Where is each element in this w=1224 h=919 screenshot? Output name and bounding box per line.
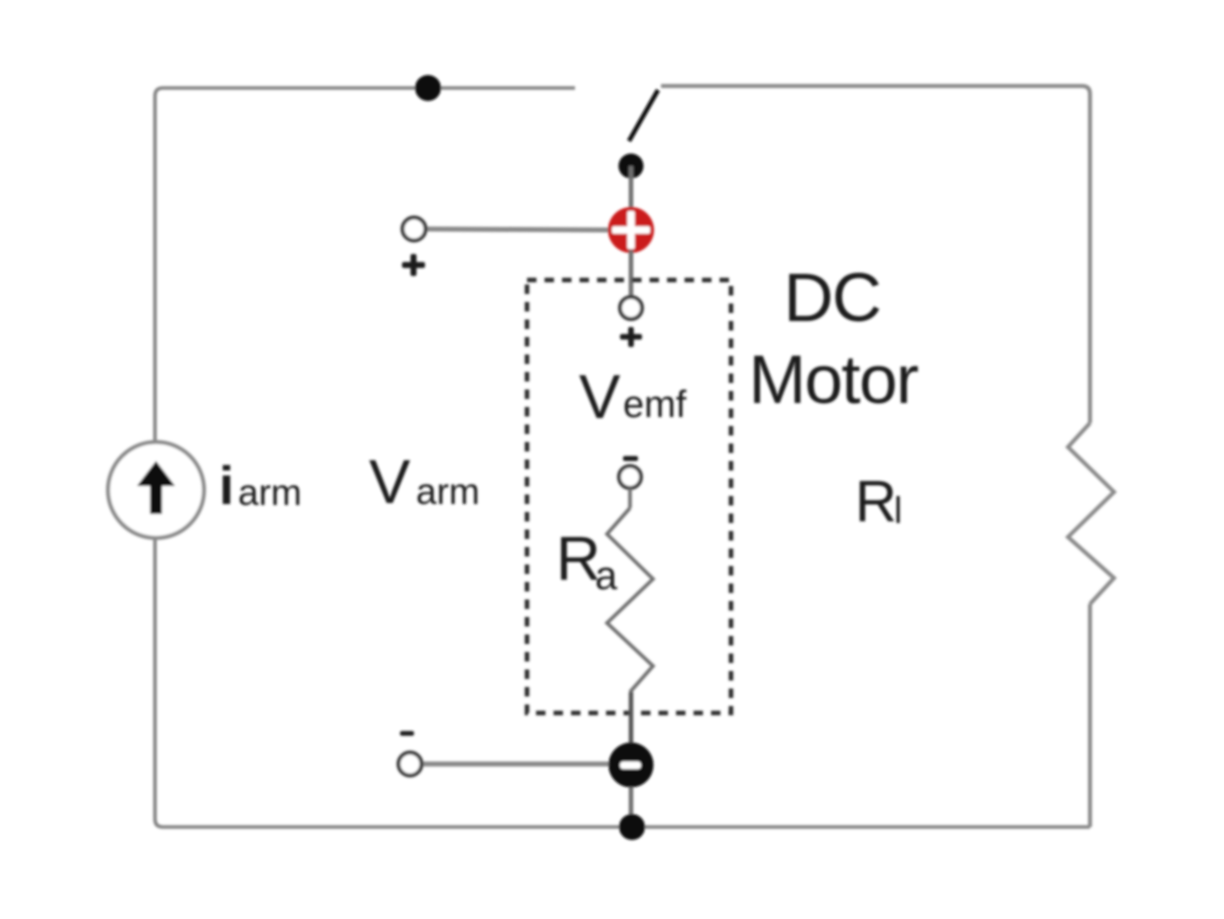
wire: upper left terminal to red terminal — [426, 229, 614, 230]
polarity + under Vemf top terminal — [620, 327, 642, 347]
svg-text:l: l — [894, 490, 902, 531]
wire: Ra to black terminal — [629, 692, 634, 748]
terminal: lower left open circle — [399, 753, 422, 776]
polarity - above lower left terminal — [400, 731, 414, 736]
node: junction dot on bottom wire — [619, 814, 645, 840]
svg-text:emf: emf — [623, 384, 687, 426]
wire: outer loop left side — [155, 88, 1090, 827]
wire: lower left terminal to black terminal — [422, 762, 614, 767]
resistor Ra zigzag — [607, 508, 653, 692]
terminal: Vemf + open circle — [620, 297, 642, 319]
node: switch pole dot — [619, 154, 644, 179]
current source arrow — [137, 461, 175, 514]
terminal: red plus terminal — [608, 207, 654, 253]
wire: top right segment into right side down to resistor Rl — [661, 86, 1090, 423]
wire: right side below Rl — [1088, 604, 1092, 827]
svg-text:Motor: Motor — [749, 341, 918, 418]
svg-text:V: V — [579, 363, 621, 432]
svg-text:a: a — [595, 554, 618, 598]
resistor Rl zigzag — [1068, 423, 1114, 604]
terminal: black minus terminal — [609, 743, 654, 788]
wire: black terminal to bottom wire — [629, 787, 634, 827]
current source iarm circle — [108, 442, 204, 538]
wire: stub below Vemf - terminal — [628, 488, 632, 508]
terminal: Vemf - open circle — [619, 466, 641, 488]
svg-text:arm: arm — [238, 472, 302, 513]
svg-text:V: V — [369, 448, 411, 517]
svg-text:DC: DC — [784, 259, 881, 336]
polarity + under upper left terminal — [402, 254, 425, 276]
svg-text:R: R — [855, 469, 897, 534]
wire: switch dot to red terminal — [629, 166, 634, 214]
svg-text:i: i — [219, 456, 234, 516]
terminal: upper left open circle — [403, 218, 426, 241]
switch blade (open) — [629, 90, 658, 141]
polarity - above Vemf bottom terminal — [623, 456, 638, 461]
wire: red terminal down to Vemf + terminal — [629, 250, 634, 297]
node: junction dot on top wire — [415, 75, 441, 101]
DC motor dashed box — [527, 280, 731, 713]
svg-text:arm: arm — [416, 471, 480, 512]
